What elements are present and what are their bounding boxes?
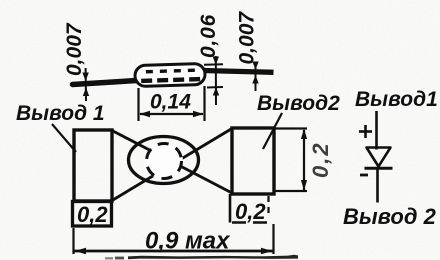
- lead 2 (right wire, side view): [203, 71, 274, 73]
- bottom view: contact pad 1 (left rectangle): [74, 130, 112, 201]
- leader line for Вывод 1: [52, 124, 76, 152]
- svg-text:Вывод2: Вывод2: [257, 92, 340, 115]
- svg-text:Вывод 1: Вывод 1: [16, 102, 105, 125]
- svg-text:0,007: 0,007: [236, 11, 259, 65]
- schematic symbol: anode lead wire: [375, 111, 378, 150]
- svg-text:Вывод1: Вывод1: [355, 88, 438, 111]
- dimension 0,2 (left pad width) framed: [73, 202, 112, 228]
- bead: white core mask: [145, 142, 183, 180]
- bead inner dashed circle: [147, 144, 182, 179]
- body internal dashed line (top): [146, 70, 196, 72]
- bottom view: glass body edge (bottom-left to top-right): [112, 129, 232, 201]
- body internal dashed line (bottom): [141, 79, 200, 81]
- leader line for Вывод2: [263, 113, 282, 149]
- bottom view: glass body edge (top-left to bottom-right): [112, 131, 232, 194]
- dimension 0,007 (right lead diameter): [236, 11, 259, 91]
- lead 1 (left wire, side view): [73, 81, 138, 85]
- bottom view: contact pad 2 (right rectangle): [232, 128, 274, 194]
- dimension 0,9 max (overall length): [74, 224, 274, 255]
- schematic symbol: cathode bar: [365, 167, 393, 170]
- dimension 0,14 (body length): [139, 86, 205, 121]
- svg-text:0,2: 0,2: [235, 199, 266, 224]
- schematic symbol: plus sign: [359, 125, 372, 138]
- svg-text:0,9 мах: 0,9 мах: [145, 228, 231, 255]
- svg-text:Вывод 2: Вывод 2: [343, 204, 437, 229]
- svg-text:0,2: 0,2: [77, 202, 108, 227]
- svg-text:0,06: 0,06: [197, 14, 220, 58]
- schematic symbol: diode triangle: [367, 148, 391, 167]
- dimension 0,007 (left lead diameter): [63, 22, 89, 101]
- dimension 0,2 (right pad width) framed: [230, 194, 269, 224]
- diode body (side view capsule): [135, 63, 206, 86]
- scan artifact: cropped print row at bottom: [105, 255, 298, 260]
- svg-text:0,007: 0,007: [63, 22, 86, 76]
- dimension 0,06 (body diameter): [197, 14, 223, 105]
- schematic symbol: cathode lead wire: [376, 169, 379, 203]
- svg-text:0,2: 0,2: [308, 141, 333, 178]
- dimension 0,2 (pad height, right side): [275, 129, 333, 192]
- svg-text:0,14: 0,14: [150, 91, 191, 114]
- bead ellipse: [129, 137, 199, 184]
- schematic symbol: minus sign: [360, 174, 368, 177]
